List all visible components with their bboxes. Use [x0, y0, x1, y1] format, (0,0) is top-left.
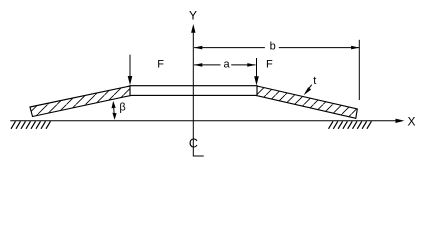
- X axis arrowhead: [396, 119, 405, 123]
- svg-text:a: a: [224, 58, 231, 70]
- force F right arrow (with extension for a): [254, 58, 259, 86]
- svg-text:X: X: [407, 114, 415, 128]
- Y axis line: [192, 30, 194, 157]
- force F left arrow: [128, 55, 133, 86]
- svg-text:β: β: [119, 102, 125, 114]
- angle beta double arrow: [112, 101, 117, 120]
- svg-text:F: F: [157, 59, 164, 71]
- dimension b extension line: [358, 40, 360, 100]
- dimension a line: [194, 63, 255, 67]
- dimension b line: [194, 46, 359, 50]
- left inclined plate arm (hatched section): [30, 86, 131, 117]
- flat center plate section: [130, 86, 257, 96]
- right inclined plate arm (hatched section): [256, 86, 357, 118]
- thickness t leader arrow: [304, 85, 312, 96]
- svg-text:C: C: [189, 136, 198, 150]
- svg-text:b: b: [270, 41, 276, 53]
- svg-text:Y: Y: [189, 8, 197, 22]
- ground hatching right support: [329, 121, 372, 129]
- X axis line: [10, 120, 397, 122]
- centerline symbol CL: [189, 136, 204, 156]
- Y axis arrowhead: [191, 24, 195, 33]
- ground hatching left support: [11, 121, 51, 129]
- svg-text:F: F: [266, 59, 273, 71]
- svg-text:t: t: [313, 75, 316, 87]
